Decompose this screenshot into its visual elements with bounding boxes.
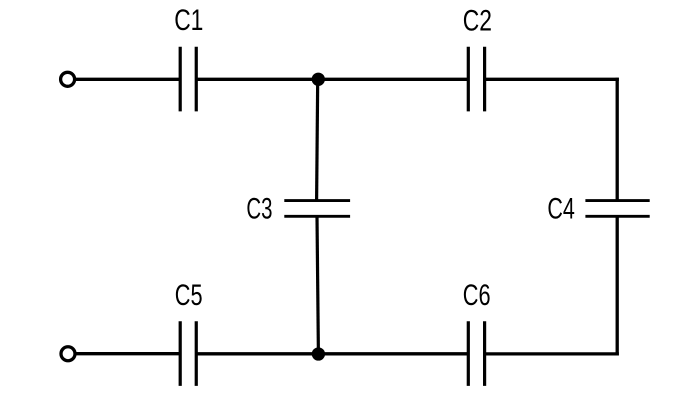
svg-text:C3: C3 <box>246 193 272 226</box>
svg-text:C4: C4 <box>547 193 575 226</box>
svg-text:C5: C5 <box>175 279 203 312</box>
svg-text:C2: C2 <box>463 4 492 37</box>
svg-text:C6: C6 <box>463 279 491 312</box>
svg-text:C1: C1 <box>174 4 203 37</box>
